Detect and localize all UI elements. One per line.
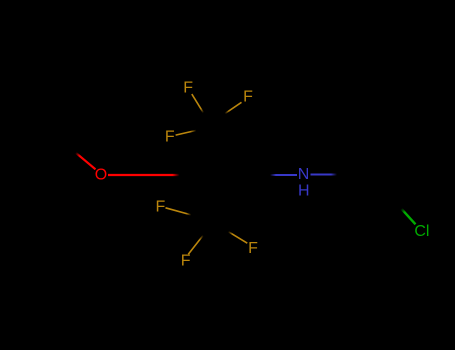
- svg-text:H: H: [298, 183, 310, 200]
- svg-text:F: F: [165, 129, 175, 146]
- bond C4-F4 gold half: [166, 208, 192, 215]
- svg-text:O: O: [95, 167, 107, 184]
- bond C4-F6 gold half: [228, 232, 247, 244]
- svg-text:F: F: [243, 88, 253, 105]
- svg-text:F: F: [183, 80, 193, 97]
- bond C3-F3 gold half: [176, 130, 197, 135]
- bond O-C2 red half: [108, 174, 180, 176]
- bond C2-N blue half: [270, 174, 297, 176]
- svg-text:N: N: [298, 166, 310, 183]
- bond C3-F2 gold half: [225, 102, 242, 113]
- bond C6-Cl green half: [401, 209, 415, 225]
- svg-text:F: F: [181, 253, 191, 270]
- bond N-C5 blue half: [311, 174, 338, 176]
- svg-text:F: F: [156, 199, 166, 216]
- bond O-CH2 ethyl red half: [76, 153, 96, 170]
- svg-text:F: F: [248, 240, 258, 257]
- bond C3-F1 gold half: [192, 94, 204, 113]
- svg-text:Cl: Cl: [414, 223, 429, 240]
- bond C4-F5 gold half: [188, 235, 203, 254]
